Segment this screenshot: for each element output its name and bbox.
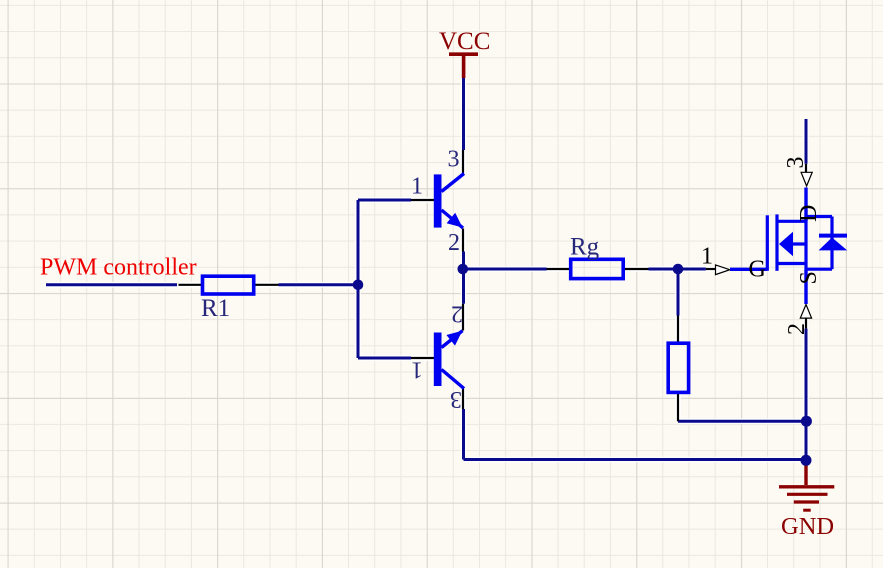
svg-text:3: 3 bbox=[450, 386, 462, 412]
svg-text:1: 1 bbox=[411, 357, 423, 383]
svg-text:1: 1 bbox=[411, 174, 423, 200]
svg-text:VCC: VCC bbox=[439, 28, 490, 55]
svg-text:2: 2 bbox=[784, 323, 810, 335]
svg-text:2: 2 bbox=[451, 301, 463, 327]
svg-text:3: 3 bbox=[783, 157, 809, 169]
svg-text:R1: R1 bbox=[201, 295, 230, 322]
svg-text:S: S bbox=[796, 271, 822, 284]
svg-text:3: 3 bbox=[448, 147, 460, 173]
svg-text:2: 2 bbox=[448, 230, 460, 256]
svg-text:PWM controller: PWM controller bbox=[40, 255, 197, 281]
svg-text:1: 1 bbox=[701, 244, 713, 270]
svg-text:Rg: Rg bbox=[570, 234, 600, 261]
svg-text:GND: GND bbox=[781, 513, 834, 540]
svg-text:D: D bbox=[796, 205, 822, 222]
svg-text:G: G bbox=[749, 257, 766, 283]
